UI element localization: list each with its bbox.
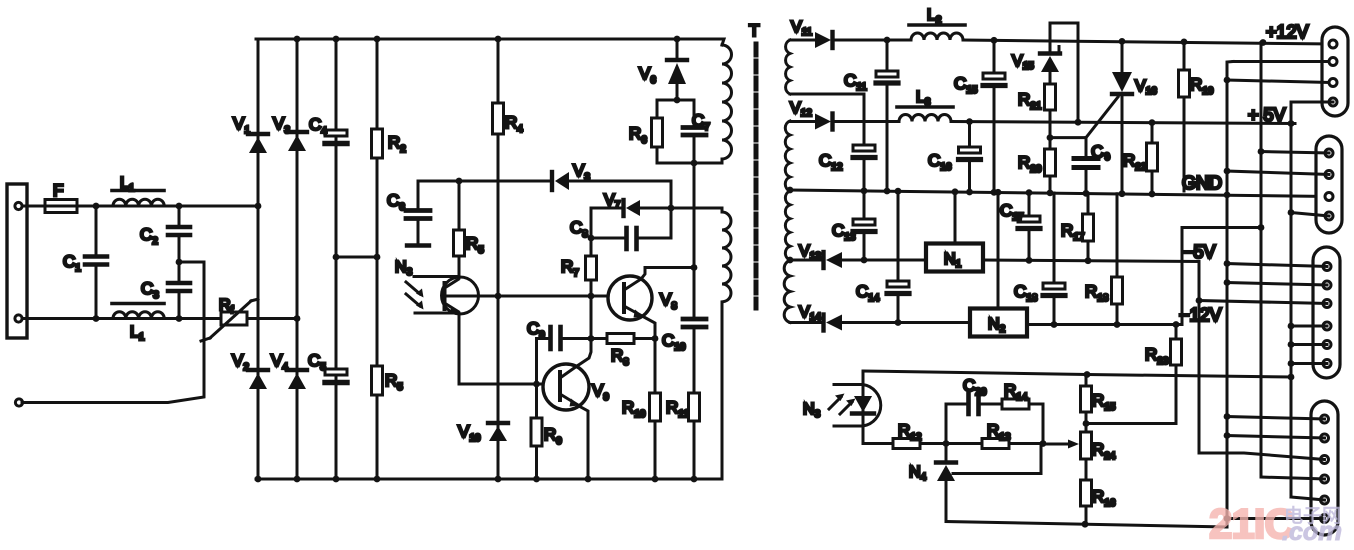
node: C4-R2 link left xyxy=(333,254,340,261)
svg-text:C7: C7 xyxy=(692,111,710,133)
node: base line - R7 column xyxy=(588,293,595,300)
svg-text:C1: C1 xyxy=(63,252,81,274)
diode V11 xyxy=(815,32,833,48)
svg-text:C20: C20 xyxy=(963,376,987,398)
wire: R14 to corner down xyxy=(1029,404,1043,444)
node: +5V rail tap xyxy=(1288,120,1295,127)
node: bottom rail V3 column xyxy=(294,476,301,483)
wire: V8 emitter xyxy=(643,317,655,339)
diode V2 xyxy=(248,370,268,389)
node: emitter-R8-R10 xyxy=(652,335,659,342)
svg-text:C9: C9 xyxy=(527,319,545,341)
wire: -12V line N2 to distribution xyxy=(1027,323,1182,326)
diode V3 (horizontal) xyxy=(552,172,569,190)
capacitor C7 xyxy=(683,100,706,163)
node: bus-N1 pin a xyxy=(952,188,959,195)
wire: bottom DC rail (primary side) xyxy=(256,478,720,481)
node: C8 line - R7 column xyxy=(588,235,595,242)
capacitor C16 xyxy=(959,122,981,193)
node: GND vert X4 pin6 tap xyxy=(1224,515,1231,522)
node: R12/C20/N4 node xyxy=(943,440,950,447)
node: C14 bottom xyxy=(895,319,902,326)
node: V9 emitter rail xyxy=(585,476,592,483)
X2 pin 1 xyxy=(1325,149,1333,157)
diode V7 xyxy=(591,200,722,216)
resistor R10 xyxy=(650,393,661,421)
wire: R7 column (R7 top to V9 collector) xyxy=(590,208,593,256)
resistor R8 xyxy=(591,334,655,344)
connector X3 xyxy=(1313,247,1340,378)
wire: X2 pin4 wire xyxy=(1291,213,1329,217)
node: V7 line - winding column xyxy=(668,205,675,212)
resistor R22 xyxy=(1147,123,1158,192)
capacitor C17 xyxy=(1018,193,1040,261)
svg-text:R4: R4 xyxy=(505,113,523,135)
node: C3 bottom xyxy=(176,315,183,322)
svg-text:F: F xyxy=(53,181,63,200)
node: GND vert X3 pin2 tap xyxy=(1224,279,1231,286)
resistor R19 xyxy=(1179,42,1190,191)
N3 LED bottom stub xyxy=(834,425,863,428)
wire: X2 pin1 wire xyxy=(1261,152,1329,154)
inductor L1 bottom core bar xyxy=(112,302,164,306)
svg-text:R10: R10 xyxy=(622,398,646,420)
wire: N3 top stub xyxy=(414,275,458,278)
inductor L2 core bar xyxy=(909,23,965,27)
node: bottom rail C5 column xyxy=(333,476,340,483)
node: L1-C2 junction xyxy=(176,203,183,210)
wire: X3 pin4 wire xyxy=(1291,325,1327,328)
wire: X4 pin3 wire xyxy=(1199,453,1325,460)
node: R11 rail xyxy=(691,476,698,483)
diode V6 xyxy=(667,39,687,100)
svg-text:C4: C4 xyxy=(309,115,327,137)
svg-text:V1: V1 xyxy=(233,114,250,136)
node: C11 top xyxy=(884,37,891,44)
inductor L1 bottom xyxy=(113,312,164,319)
wire: +12V line V11 to L2 xyxy=(834,39,911,42)
svg-text:R9: R9 xyxy=(544,425,562,447)
capacitor C15 xyxy=(983,40,1005,191)
node: bottom rail V1 column xyxy=(255,476,262,483)
GND bus xyxy=(790,190,1329,197)
X3 pin 1 xyxy=(1323,263,1331,271)
svg-text:R13: R13 xyxy=(987,421,1011,443)
svg-text:V13: V13 xyxy=(799,243,821,262)
X2 pin 2 xyxy=(1325,171,1333,179)
wire: +5V line L3 to distribution xyxy=(951,122,1295,124)
svg-text:C18: C18 xyxy=(1014,282,1038,304)
wire: w1 bottom to C12 xyxy=(790,93,864,96)
node: +12V distribution tap xyxy=(1260,39,1267,46)
transformer feedback winding xyxy=(722,208,731,302)
wire: feedback bottom rail xyxy=(946,522,1227,528)
wire: sense top wire xyxy=(863,371,1291,377)
resistor R7 xyxy=(586,256,597,280)
capacitor C5 xyxy=(325,369,347,383)
node: rail-R2 xyxy=(374,36,381,43)
wire: N3 lower stub xyxy=(415,312,458,315)
N3 light arrows xyxy=(406,282,424,310)
wire: plug bottom line xyxy=(22,317,221,320)
wire: X1 pin2 wire xyxy=(1233,60,1329,63)
transistor V8 xyxy=(608,276,652,320)
svg-text:R20: R20 xyxy=(1018,153,1042,175)
wire: X3 pin3 wire xyxy=(1199,301,1327,304)
svg-text:R5: R5 xyxy=(466,234,484,256)
X3 pin 2 xyxy=(1323,281,1331,289)
wire: earth terminal to filter midpoint xyxy=(22,262,204,403)
capacitor C3 xyxy=(168,262,190,319)
node: GND vert pin3 tap xyxy=(1224,77,1231,84)
wire: N1 supply pin xyxy=(954,192,957,244)
X4 pin 2 xyxy=(1321,434,1329,442)
node: sense X3 pin5 xyxy=(1288,341,1295,348)
wire: top DC rail xyxy=(256,39,724,45)
svg-text:C10: C10 xyxy=(662,331,686,353)
diode V10 xyxy=(488,423,508,441)
earth terminal xyxy=(15,399,22,406)
wire: X1 pin4 wire xyxy=(1291,101,1333,104)
node: snubber column top xyxy=(691,160,698,167)
svg-text:R23: R23 xyxy=(1145,345,1169,367)
svg-text:C14: C14 xyxy=(856,282,880,304)
wire: w3 bottom to V13 xyxy=(790,259,822,262)
svg-text:V9: V9 xyxy=(592,381,609,403)
resistor R21 xyxy=(1045,84,1056,110)
capacitor C20 xyxy=(969,394,1003,414)
node: C17 bottom xyxy=(1026,257,1033,264)
node: R10 rail xyxy=(652,476,659,483)
transistor V9 xyxy=(543,364,589,410)
node: bus-C11 xyxy=(884,188,891,195)
LED diode of N3 xyxy=(852,396,874,414)
wire: -5V distribution xyxy=(1198,262,1201,454)
capacitor C13 xyxy=(853,191,875,260)
capacitor C19 xyxy=(1074,138,1098,191)
wire: C20 branch riser xyxy=(946,404,966,444)
regulator N2 xyxy=(970,309,1027,337)
svg-text:L1: L1 xyxy=(130,324,145,343)
N3 LED top stub xyxy=(834,383,863,386)
svg-text:R19: R19 xyxy=(1190,75,1214,97)
svg-text:V6: V6 xyxy=(639,64,656,86)
svg-text:L3: L3 xyxy=(916,89,931,108)
capacitor C6 xyxy=(406,181,430,246)
node: bus-winding joint xyxy=(787,187,794,194)
wire: X4 pin6 wire xyxy=(1227,517,1325,520)
node: rail-V6 xyxy=(674,36,681,43)
node: link right xyxy=(374,254,381,261)
wire: X4 pin1 wire xyxy=(1227,417,1325,420)
watermark 21IC xyxy=(1209,500,1342,547)
capacitor C1 xyxy=(85,206,107,319)
resistor R14 xyxy=(1002,399,1029,409)
capacitor C14 xyxy=(887,192,909,323)
wire: X3 pin6 wire xyxy=(1291,362,1327,365)
wire: snubber bottom to primary winding bottom xyxy=(657,162,722,165)
X2 pin 3 xyxy=(1325,193,1333,201)
svg-text:R18: R18 xyxy=(1085,282,1109,304)
wire: N2 supply pin xyxy=(997,193,1000,309)
wire: V8 collector xyxy=(641,268,694,280)
svg-text:+ 5V: + 5V xyxy=(1248,105,1286,125)
wire: node to R24 wiper arrow xyxy=(1043,443,1068,446)
wire: plug top to fuse and bridge xyxy=(22,205,256,208)
wire: V3 snubber line xyxy=(418,180,551,183)
node: V8 collector - snubber column xyxy=(691,264,698,271)
wire: R2/R5 column xyxy=(376,39,379,479)
node: -5V branch xyxy=(1196,297,1203,304)
svg-text:V15: V15 xyxy=(1012,53,1034,72)
X3 pin 3 xyxy=(1323,300,1331,308)
node: rail-C4 xyxy=(333,36,340,43)
svg-text:V4: V4 xyxy=(271,351,288,373)
svg-text:−5V: −5V xyxy=(1183,242,1216,262)
wire: R12 to node xyxy=(920,442,946,445)
inductor L3 core bar xyxy=(897,105,953,109)
svg-text:L1: L1 xyxy=(120,175,135,194)
AC plug connector xyxy=(7,184,27,338)
svg-text:R5: R5 xyxy=(385,371,403,393)
X1 pin 1 xyxy=(1329,40,1337,48)
resistor R11 xyxy=(689,393,700,421)
wire: gate node to SCR gate xyxy=(1050,136,1086,139)
wire: X4 pin2 wire xyxy=(1227,436,1325,439)
node: C18 bottom xyxy=(1051,321,1058,328)
svg-text:R14: R14 xyxy=(1004,381,1028,403)
node: rail-R4 xyxy=(495,36,502,43)
shunt regulator N4 xyxy=(936,444,956,522)
wire: C4-R2 link xyxy=(336,256,377,259)
wire: -12V line V14 to N2 xyxy=(842,321,970,324)
node: gate node xyxy=(1047,134,1054,141)
inductor L2 xyxy=(911,33,963,40)
node: bus-R22 xyxy=(1149,191,1156,198)
node: C2-C3 midpoint xyxy=(176,259,183,266)
node: sense wire junction xyxy=(1288,374,1295,381)
svg-text:R2: R2 xyxy=(388,133,406,155)
X3 pin 4 xyxy=(1323,322,1331,330)
resistor R16 xyxy=(1081,480,1092,524)
svg-text:V7: V7 xyxy=(604,192,621,211)
svg-text:.com: .com xyxy=(1282,516,1342,546)
wire: +5V / sense distribution vertical xyxy=(1290,102,1293,497)
svg-text:C9: C9 xyxy=(1090,141,1112,166)
wire: X3 pin2 wire xyxy=(1227,283,1327,286)
wire: +5V line V12 to L3 xyxy=(834,120,899,123)
svg-text:V16: V16 xyxy=(1135,78,1157,97)
plug terminal top xyxy=(15,202,22,209)
svg-text:V11: V11 xyxy=(791,19,812,38)
wire: X3 pin5 wire xyxy=(1291,343,1327,346)
node: C16 top xyxy=(966,118,973,125)
svg-text:C6: C6 xyxy=(387,191,405,213)
node: R9 bottom rail xyxy=(533,476,540,483)
capacitor C9 xyxy=(537,327,592,384)
diode V12 xyxy=(815,114,833,130)
diode V3 xyxy=(287,132,307,151)
svg-text:R24: R24 xyxy=(1092,440,1116,462)
node: w3/w4 center tap xyxy=(787,257,794,264)
svg-text:GND: GND xyxy=(1182,173,1222,193)
connector X4 xyxy=(1311,401,1338,535)
resistor R17 xyxy=(1083,193,1094,260)
regulator N1 xyxy=(926,244,983,272)
node: bottom rail R4 column xyxy=(495,476,502,483)
capacitor C11 xyxy=(876,40,898,191)
capacitor C8 xyxy=(591,228,671,249)
node: R15 top xyxy=(1084,371,1091,378)
node: R23 top xyxy=(1173,321,1180,328)
wire: +12V / -12V distribution vertical xyxy=(1260,43,1263,478)
secondary winding w4 xyxy=(784,261,790,323)
wire: -5V line V13 to N1 xyxy=(842,259,926,262)
node: bus-C16/N1 pin b xyxy=(966,189,973,196)
plug terminal bottom xyxy=(15,315,22,322)
svg-text:V12: V12 xyxy=(790,100,812,119)
resistor R2 xyxy=(372,129,383,158)
resistor R13 xyxy=(946,439,1043,449)
diode V14 xyxy=(824,315,843,331)
node: sense X3 pin4 xyxy=(1288,323,1295,330)
wire: C4/C5 column xyxy=(335,39,338,479)
wire: w4 bottom to V14 xyxy=(790,321,822,324)
capacitor C18 xyxy=(1043,193,1065,325)
svg-text:C5: C5 xyxy=(308,351,326,373)
node: R13/R14 node xyxy=(1040,440,1047,447)
node: V16 anode xyxy=(1119,38,1126,45)
node: R22 top xyxy=(1149,119,1156,126)
wire: X2 pin2 wire xyxy=(1227,171,1329,175)
optocoupler N3 phototransistor xyxy=(442,277,479,314)
diode V13 xyxy=(824,252,843,268)
node: bottom rail R5 column xyxy=(374,476,381,483)
transformer primary winding xyxy=(722,45,732,163)
node: C13 bottom xyxy=(861,257,868,264)
wire: V1/V2 column xyxy=(257,39,260,479)
X2 pin 4 xyxy=(1325,212,1333,220)
diode V1 xyxy=(248,134,268,153)
X3 pin 6 xyxy=(1323,360,1331,368)
wire: R4 column xyxy=(497,39,500,479)
capacitor C12 xyxy=(853,94,875,191)
wire: C10/R11 column xyxy=(693,163,696,317)
node: V6-R6C7 xyxy=(674,97,681,104)
svg-text:C8: C8 xyxy=(570,218,588,240)
wire: X4 pin5 wire xyxy=(1291,497,1325,500)
X4 pin 1 xyxy=(1321,415,1329,423)
node: C9-V9 base junction xyxy=(533,381,540,388)
resistor R6 xyxy=(652,100,663,163)
svg-text:V14: V14 xyxy=(799,304,821,323)
resistor R12 xyxy=(893,439,920,449)
svg-text:C12: C12 xyxy=(819,151,843,173)
node: R15/R23 node xyxy=(1083,420,1090,427)
wire: X4 pin4 wire xyxy=(1261,477,1325,479)
node: bus-V16 cathode/R18 xyxy=(1119,190,1126,197)
node: R18 bottom xyxy=(1114,321,1121,328)
svg-text:R12: R12 xyxy=(898,421,922,443)
resistor R23 xyxy=(1171,325,1182,424)
wire: Rf to V4 column xyxy=(247,317,297,320)
node: -12V distribution tap xyxy=(1258,224,1265,231)
node: V3 line - R5 column xyxy=(456,178,463,185)
svg-text:R22: R22 xyxy=(1123,151,1147,173)
node: V15 loop tap xyxy=(1075,119,1082,126)
node: +12V vert X2 pin1 xyxy=(1258,148,1265,155)
svg-text:N3: N3 xyxy=(395,259,413,278)
X3 pin 5 xyxy=(1323,341,1331,349)
X1 pin 2 xyxy=(1329,58,1337,66)
node: +5V vert X2 pin4 xyxy=(1288,209,1295,216)
wire: V8 base line xyxy=(444,295,622,298)
wire: R21 to gate node xyxy=(1049,110,1052,148)
wire: X1 pin3 wire xyxy=(1227,80,1329,83)
node: bus-C14 xyxy=(895,188,902,195)
node: GND vert pin X2-2 tap xyxy=(1224,168,1231,175)
transformer T core dashed line xyxy=(754,44,759,308)
resistor R15 xyxy=(1081,375,1092,433)
X1 pin 3 xyxy=(1329,79,1337,87)
wire: -12V riser xyxy=(1182,228,1260,325)
svg-text:R16: R16 xyxy=(1092,487,1116,509)
X1 pin 4 xyxy=(1329,98,1337,106)
wire: R23 bottom link xyxy=(1086,422,1176,425)
node: bus-GND distribution xyxy=(1224,192,1231,199)
node: GND vert X4 pin2 tap xyxy=(1224,432,1231,439)
node: GND vert X4 pin1 tap xyxy=(1224,413,1231,420)
secondary winding w3 xyxy=(785,191,790,260)
node: sense X3 pin6 xyxy=(1288,360,1295,367)
svg-text:V10: V10 xyxy=(458,422,481,444)
node: R19 top xyxy=(1181,39,1188,46)
svg-text:Rf: Rf xyxy=(219,297,234,316)
thyristor V16 xyxy=(1086,42,1132,192)
X4 pin 4 xyxy=(1321,475,1329,483)
resistor R18 xyxy=(1112,194,1123,325)
svg-text:R7: R7 xyxy=(561,257,579,279)
svg-text:C17: C17 xyxy=(1000,201,1024,223)
resistor R20 xyxy=(1045,148,1056,191)
svg-text:R11: R11 xyxy=(666,398,689,420)
connector X1 xyxy=(1322,27,1348,116)
resistor R5 (lower) xyxy=(372,366,383,395)
node: R4-base junction xyxy=(495,293,502,300)
wire: sense top wire to LED anode xyxy=(862,371,865,385)
wire: V9 emitter xyxy=(579,406,588,479)
fuse F xyxy=(45,200,77,213)
wire: N3 collector to R5 xyxy=(458,277,461,278)
zener V15 xyxy=(1040,23,1078,122)
N3 LED arrows xyxy=(829,394,856,415)
wire: LED cathode to R12 xyxy=(863,426,893,444)
svg-text:−12V: −12V xyxy=(1179,305,1222,325)
svg-text:V2: V2 xyxy=(232,351,249,373)
capacitor C4 xyxy=(325,130,347,144)
node: bus-C19/R17 xyxy=(1083,190,1090,197)
secondary winding w1 xyxy=(786,40,790,94)
diode V4 xyxy=(287,370,307,389)
wire: V3 to feedback winding top xyxy=(569,181,671,238)
X4 pin 5 xyxy=(1321,496,1329,504)
node: rail-V3 xyxy=(294,36,301,43)
node: fuse-C1 junction xyxy=(93,203,100,210)
svg-text:C16: C16 xyxy=(928,151,952,173)
node: C9/R8 - R7 column xyxy=(588,335,595,342)
inductor L1 top core bar xyxy=(112,189,164,193)
inductor L1 top xyxy=(113,199,164,206)
